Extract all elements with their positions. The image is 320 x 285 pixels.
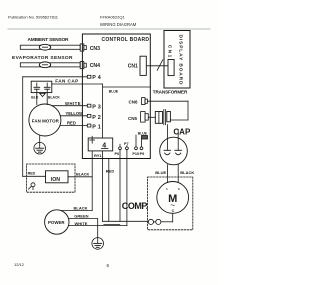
svg-text:TRANSFORMER: TRANSFORMER (153, 90, 188, 95)
svg-text:P7: P7 (124, 142, 129, 146)
svg-text:BLACK: BLACK (74, 205, 88, 210)
svg-text:S: S (166, 187, 168, 191)
svg-text:CONTROL BOARD: CONTROL BOARD (102, 37, 150, 43)
svg-text:BLU: BLU (31, 95, 39, 99)
svg-text:C: C (172, 209, 175, 213)
svg-text:COMP.: COMP. (122, 201, 149, 211)
svg-text:BLUE: BLUE (138, 132, 148, 136)
svg-text:BLACK: BLACK (76, 172, 90, 176)
svg-text:FAN MOTOR: FAN MOTOR (32, 119, 60, 124)
svg-text:BLUE: BLUE (109, 90, 119, 94)
svg-text:DISPLAY BOARD: DISPLAY BOARD (178, 35, 184, 86)
svg-text:CN6: CN6 (129, 99, 138, 104)
svg-text:WHITE: WHITE (65, 101, 81, 106)
svg-text:BLACK: BLACK (180, 170, 194, 175)
svg-text:RED: RED (67, 121, 76, 126)
svg-text:CAP: CAP (173, 127, 191, 136)
svg-text:RED: RED (28, 172, 36, 176)
svg-text:CN5: CN5 (128, 116, 137, 121)
svg-text:ION: ION (51, 177, 60, 183)
svg-text:BLUE: BLUE (155, 170, 166, 175)
svg-text:CN4: CN4 (90, 63, 100, 69)
svg-text:WHITE: WHITE (75, 221, 88, 226)
svg-text:Publication No. 5995627811: Publication No. 5995627811 (8, 15, 59, 20)
svg-text:4: 4 (102, 142, 106, 149)
svg-text:BLACK: BLACK (48, 95, 60, 99)
svg-text:FFRA0622Q1: FFRA0622Q1 (100, 15, 125, 20)
svg-text:WIRING DIAGRAM: WIRING DIAGRAM (100, 22, 137, 27)
svg-text:RED: RED (106, 169, 115, 174)
svg-text:CN1: CN1 (128, 64, 138, 70)
svg-text:P9: P9 (140, 152, 145, 156)
svg-text:GREEN: GREEN (74, 213, 88, 218)
svg-text:EVAPORATOR SENSOR: EVAPORATOR SENSOR (12, 55, 73, 61)
svg-text:CN3: CN3 (90, 46, 100, 52)
svg-text:12/12: 12/12 (14, 262, 25, 267)
svg-text:AMBIENT SENSOR: AMBIENT SENSOR (28, 37, 70, 43)
svg-text:RY1: RY1 (94, 153, 102, 158)
svg-text:POWER: POWER (48, 220, 65, 225)
svg-text:FAN CAP: FAN CAP (55, 79, 78, 84)
svg-text:P10: P10 (132, 152, 139, 156)
svg-text:P6: P6 (115, 152, 120, 156)
svg-text:YELLOW: YELLOW (66, 111, 84, 116)
svg-text:CN1: CN1 (167, 45, 173, 58)
